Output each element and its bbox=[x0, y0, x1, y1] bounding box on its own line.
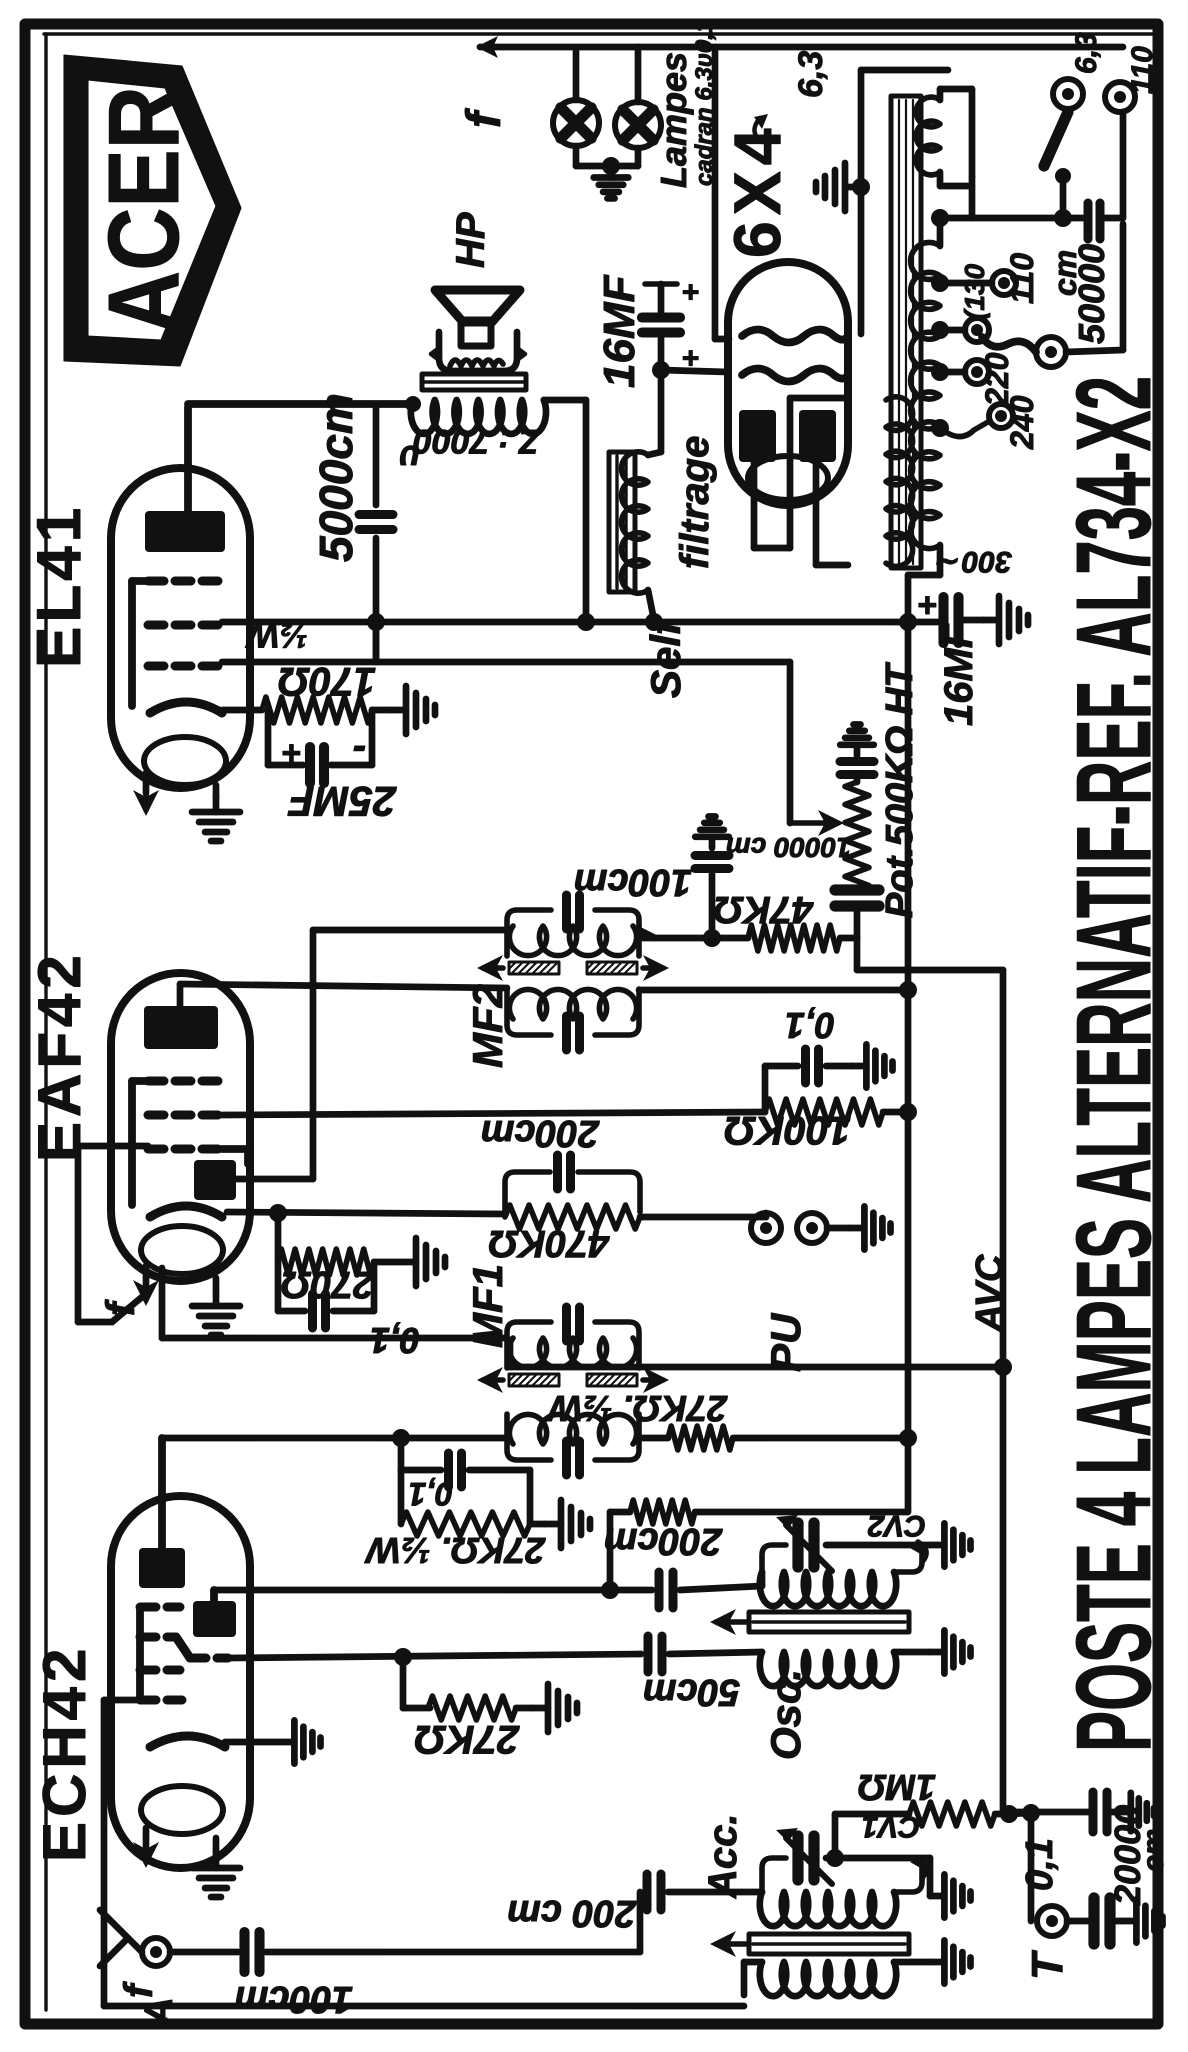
svg-text:HP: HP bbox=[449, 212, 493, 268]
svg-text:EAF42: EAF42 bbox=[26, 950, 93, 1162]
svg-text:16MF: 16MF bbox=[595, 274, 644, 388]
svg-text:EL41: EL41 bbox=[25, 504, 94, 668]
svg-text:10000 cm: 10000 cm bbox=[726, 832, 852, 863]
svg-text:6,3: 6,3 bbox=[792, 51, 830, 98]
svg-text:110: 110 bbox=[1126, 46, 1159, 94]
svg-text:cm: cm bbox=[1047, 250, 1083, 296]
svg-text:υ: υ bbox=[399, 438, 420, 479]
svg-text:16MF: 16MF bbox=[937, 622, 981, 726]
svg-text:25MF: 25MF bbox=[287, 778, 397, 825]
svg-text:+: + bbox=[918, 586, 938, 624]
svg-text:470KΩ: 470KΩ bbox=[488, 1222, 610, 1264]
svg-text:T: T bbox=[1023, 1950, 1072, 1980]
svg-text:100KΩ: 100KΩ bbox=[724, 1108, 851, 1152]
svg-text:-: - bbox=[353, 729, 366, 773]
svg-text:1MΩ: 1MΩ bbox=[858, 1767, 936, 1808]
svg-text:100cm: 100cm bbox=[235, 1978, 353, 2020]
svg-text:Z : 7000: Z : 7000 bbox=[413, 422, 541, 460]
svg-text:5000cm: 5000cm bbox=[310, 393, 362, 562]
svg-text:0,1: 0,1 bbox=[370, 1320, 420, 1361]
svg-text:0,1: 0,1 bbox=[785, 1005, 835, 1046]
svg-text:Self: Self bbox=[642, 617, 689, 698]
svg-text:27KΩ. ½W: 27KΩ. ½W bbox=[364, 1530, 546, 1571]
svg-text:200 cm: 200 cm bbox=[507, 1892, 637, 1934]
svg-text:200cm: 200cm bbox=[604, 1520, 723, 1562]
svg-text:A: A bbox=[137, 1997, 181, 2027]
svg-text:300∼: 300∼ bbox=[936, 545, 1012, 578]
svg-text:filtrage: filtrage bbox=[673, 436, 717, 569]
svg-text:AVC: AVC bbox=[969, 1254, 1011, 1333]
svg-text:270Ω: 270Ω bbox=[281, 1263, 375, 1305]
svg-text:Pot.500KΩ HT: Pot.500KΩ HT bbox=[879, 662, 921, 918]
svg-text:CV2: CV2 bbox=[867, 1509, 926, 1542]
svg-text:100cm: 100cm bbox=[574, 861, 692, 903]
svg-text:cm: cm bbox=[1137, 1829, 1170, 1872]
svg-text:170Ω: 170Ω bbox=[278, 659, 376, 703]
svg-text:+: + bbox=[682, 341, 700, 374]
svg-text:Lampes: Lampes bbox=[653, 52, 694, 188]
svg-text:6X4: 6X4 bbox=[720, 123, 794, 258]
svg-text:(130: (130 bbox=[959, 264, 990, 320]
svg-text:6,3: 6,3 bbox=[1070, 32, 1103, 74]
svg-text:Osc.: Osc. bbox=[762, 1669, 809, 1760]
svg-text:0,1: 0,1 bbox=[409, 1476, 453, 1512]
svg-text:27KΩ: 27KΩ bbox=[414, 1717, 520, 1761]
svg-text:MF2: MF2 bbox=[464, 984, 511, 1068]
svg-text:ECH42: ECH42 bbox=[31, 1644, 98, 1862]
svg-text:PU: PU bbox=[762, 1312, 809, 1372]
svg-text:+: + bbox=[282, 734, 302, 772]
svg-text:ACER: ACER bbox=[88, 86, 200, 334]
svg-text:50cm: 50cm bbox=[643, 1671, 740, 1713]
svg-text:27KΩ. ½W: 27KΩ. ½W bbox=[546, 1388, 728, 1429]
svg-text:200cm: 200cm bbox=[481, 1112, 600, 1154]
svg-text:Acc.: Acc. bbox=[701, 1814, 745, 1900]
svg-text:110: 110 bbox=[1004, 253, 1040, 304]
svg-text:+: + bbox=[682, 275, 700, 308]
svg-text:0,1: 0,1 bbox=[1019, 1838, 1061, 1891]
svg-text:240: 240 bbox=[1004, 395, 1040, 450]
svg-text:47KΩ: 47KΩ bbox=[714, 888, 814, 930]
svg-text:POSTE 4 LAMPES ALTERNATIF-REF.: POSTE 4 LAMPES ALTERNATIF-REF. AL734-X2 bbox=[1055, 376, 1173, 1752]
